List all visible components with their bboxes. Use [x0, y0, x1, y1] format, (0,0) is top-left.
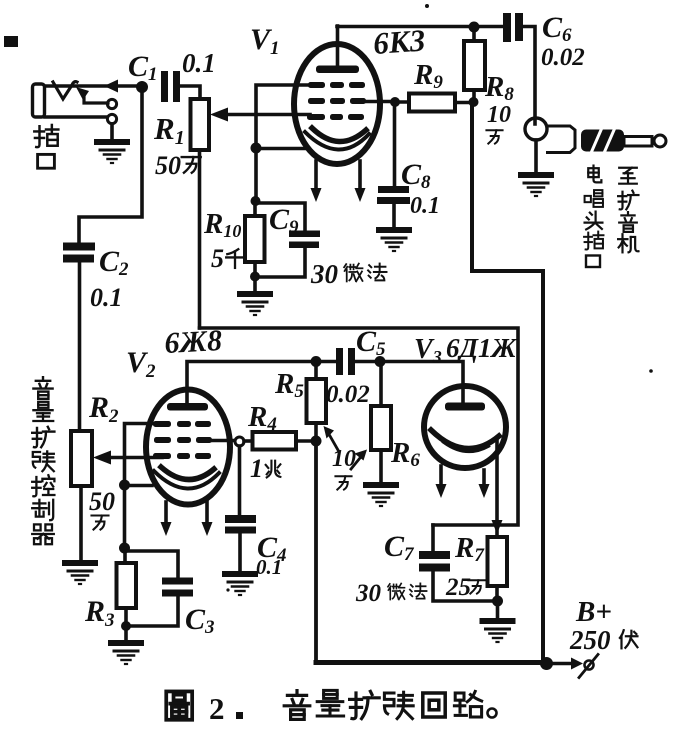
svg-text:250: 250 [569, 625, 611, 655]
V1 plate [316, 66, 359, 74]
V2 control grid dashes [153, 453, 211, 459]
resistor R5 [307, 379, 327, 423]
node B+ corner [540, 657, 553, 670]
wire R2 bottom [79, 486, 83, 560]
node C5 right [375, 356, 386, 367]
10万 pointer arrow to R6 [351, 458, 360, 469]
wire B+ bottom bus [316, 660, 547, 665]
R1 wiper arrow [226, 113, 310, 117]
wire B+ riser [472, 102, 543, 659]
capacitor C5 [336, 348, 343, 375]
resistor R6 [371, 406, 391, 450]
V2 screen grid exit wire [212, 439, 234, 443]
node R9 left [390, 97, 400, 107]
V3 cathode [431, 430, 499, 449]
tube V2 envelope [146, 390, 230, 505]
node at C1 left [136, 81, 148, 93]
V2 screen grid dashes [154, 437, 212, 443]
wire V1 suppressor to cathode bracket [256, 85, 308, 201]
node R10 top [251, 196, 261, 206]
B+ terminal [553, 662, 572, 666]
V1 screen grid dashes [308, 98, 366, 104]
V3 cathode lead wire [495, 440, 499, 522]
resistor R10 [245, 216, 265, 262]
wire jack to ground [534, 140, 538, 172]
svg-text:5: 5 [211, 244, 224, 273]
svg-text:6Ж8: 6Ж8 [164, 324, 223, 360]
ground (R10) [253, 277, 257, 291]
V1 suppressor grid dashes [308, 82, 365, 88]
ground (R2) [62, 560, 98, 584]
label 插口 (input jack) [34, 125, 58, 147]
resistor R3 [117, 563, 137, 608]
V2 cathode [161, 467, 214, 480]
ground (C4) [222, 571, 258, 595]
svg-text:6К3: 6К3 [372, 22, 426, 61]
jack spring contact [53, 82, 77, 99]
capacitor C6 [503, 13, 511, 42]
input jack plug tip [33, 84, 45, 117]
wire V1 screen grid to R9 [366, 100, 395, 104]
potentiometer R2 [71, 431, 92, 486]
node R7 bottom [492, 596, 503, 607]
ground (R6) [363, 482, 399, 506]
resistor R8 [464, 41, 485, 90]
V2 plate [167, 403, 208, 411]
wire cathode tie [256, 147, 307, 151]
capacitor C3 [125, 551, 179, 578]
svg-text:50: 50 [155, 151, 181, 180]
resistor R4 [253, 432, 297, 450]
ground (C8) [376, 227, 412, 251]
tube V1 envelope [294, 44, 380, 164]
capacitor C4 [225, 515, 256, 523]
svg-text:10: 10 [487, 102, 511, 128]
label 音量扩張控制器 [33, 377, 52, 399]
label 电唱头插口 [588, 166, 601, 183]
node R3 top [119, 543, 130, 554]
svg-text:B+: B+ [575, 596, 612, 628]
V2 suppressor grid dashes [153, 421, 211, 427]
node V2 screen terminal circle [235, 437, 244, 446]
V1 heater lead right [358, 161, 362, 190]
jack moving contact arrow [84, 94, 108, 103]
svg-text:30: 30 [355, 580, 382, 607]
wire top bus V1 plate to C6 [337, 25, 503, 29]
node V2 cathode tie [119, 480, 130, 491]
label 至扩音机 [619, 168, 637, 184]
wire V2 suppressor bracket [125, 424, 154, 549]
svg-text:0.1: 0.1 [182, 48, 216, 78]
wire [110, 124, 114, 139]
wire C2 to R2 [78, 262, 82, 431]
wire screen node to C8 [393, 102, 397, 186]
wire C6 to output jack [523, 27, 535, 125]
resistor R7 [488, 537, 508, 586]
node R8 bottom / B+ feed [469, 97, 479, 107]
svg-text:50: 50 [89, 487, 115, 516]
wire screen bypass to C4 [238, 446, 242, 515]
node R5 top / V2 plate [311, 356, 322, 367]
capacitor C1 [161, 71, 168, 102]
V1 control grid dashes [307, 114, 364, 120]
potentiometer R1 [191, 99, 210, 150]
caption 圖 2. 音量扩張回路。 [166, 691, 192, 719]
output jack sleeve [525, 118, 547, 140]
10万 pointer arrow to R5 [330, 436, 338, 450]
V2 plate lead wire [187, 362, 316, 405]
capacitor C8 [378, 186, 409, 193]
capacitor C7 [431, 525, 435, 551]
V1 heater lead left [314, 161, 318, 190]
tube V3 envelope [424, 386, 506, 468]
wire C5 node to V3 plate [380, 362, 463, 405]
svg-text:0.1: 0.1 [256, 555, 282, 579]
V3 heater lead right [482, 470, 486, 486]
phone plug [581, 130, 624, 152]
V3 plate [445, 403, 485, 411]
V3 heater lead left [439, 466, 443, 486]
arrowhead on input wire [104, 80, 118, 93]
ground (output jack) [518, 172, 554, 196]
scan speck [425, 4, 429, 8]
V1 plate lead wire [336, 26, 340, 66]
V1 cathode [312, 128, 366, 142]
wire cathode tie [124, 484, 152, 488]
capacitor C9 [255, 203, 305, 231]
output jack body [547, 126, 575, 153]
node suppressor-cathode [251, 143, 262, 154]
svg-text:30: 30 [310, 259, 339, 289]
svg-text:0.1: 0.1 [90, 283, 123, 312]
svg-text:10: 10 [332, 446, 356, 472]
svg-text:25: 25 [445, 574, 471, 601]
V2 heater lead left [164, 502, 168, 524]
jack terminal circles [107, 99, 116, 108]
svg-text:6Д1Ж: 6Д1Ж [446, 333, 517, 363]
ground (R7) [496, 601, 500, 618]
wire R1 bottom to expander line [198, 150, 202, 328]
node R5 bottom / R4 [311, 436, 322, 447]
wire [45, 84, 138, 88]
R2 wiper arrow [109, 456, 162, 460]
ground (R3) [124, 626, 128, 640]
capacitor C2 [63, 243, 95, 251]
ground (input jack) [94, 139, 130, 163]
svg-text:1: 1 [250, 454, 263, 483]
wire expander line to C7/R7 node [200, 328, 519, 525]
wire [45, 115, 107, 119]
svg-text:0.1: 0.1 [410, 193, 440, 219]
node R10 bottom [250, 272, 260, 282]
svg-text:0.02: 0.02 [541, 44, 585, 71]
svg-text:2: 2 [209, 691, 225, 726]
node R3 bottom [121, 621, 131, 631]
V2 heater lead right [205, 502, 209, 524]
wire jack node to C2 [79, 90, 142, 243]
node R8 top [469, 22, 480, 33]
svg-text:0.02: 0.02 [326, 381, 370, 408]
resistor R9 [409, 94, 455, 112]
